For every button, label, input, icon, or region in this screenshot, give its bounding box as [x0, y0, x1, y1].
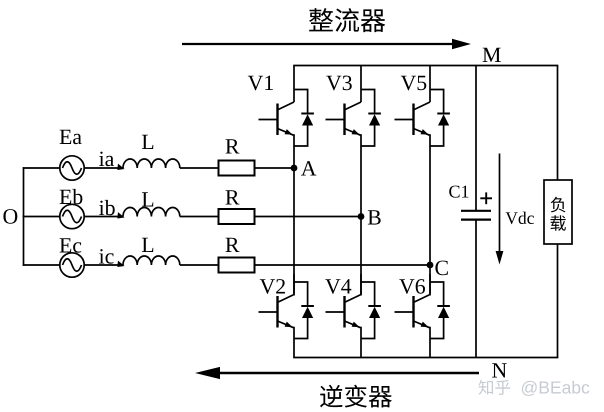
label C1	[449, 186, 468, 198]
wire: leg B bottom to N bus	[360, 339, 362, 358]
Vdc arrow annotation	[496, 154, 504, 265]
AC source Ec	[60, 253, 84, 277]
label L (phase a)	[142, 135, 153, 149]
wire: M bus to capacitor C1	[475, 66, 477, 211]
inductor L (phase c)	[123, 256, 180, 265]
label V6	[399, 279, 425, 294]
wire: resistor to node B	[255, 216, 362, 218]
wire: negative DC bus (N)	[293, 357, 558, 359]
IGBT V5 with antiparallel diode	[395, 66, 450, 147]
wire: phase a from O to source Ea	[23, 167, 60, 169]
rectifier direction arrow (top)	[182, 39, 471, 49]
node A (junction dot + label)	[291, 161, 317, 175]
capacitor C1	[461, 211, 491, 220]
label Ec	[60, 238, 82, 252]
label ic	[99, 249, 114, 264]
wire: leg A bottom to N bus	[293, 339, 295, 358]
wire: leg C midsection	[429, 146, 431, 296]
watermark 知乎 @BEabc	[479, 380, 591, 398]
wire: source Eb to inductor	[84, 216, 123, 218]
wire: phase b from O to source Eb	[23, 216, 60, 218]
label ib	[99, 200, 115, 215]
AC source Eb	[60, 204, 84, 228]
label Ea	[60, 130, 82, 144]
label R (phase b)	[226, 190, 240, 204]
AC source Ea	[60, 156, 84, 180]
label V1	[248, 76, 273, 91]
label V4	[325, 279, 351, 294]
polarity + sign	[480, 192, 492, 204]
wire: M bus to load	[557, 66, 559, 181]
wire: leg A midsection	[293, 146, 295, 296]
node B (junction dot + label)	[358, 210, 381, 224]
resistor R (phase a)	[219, 161, 255, 176]
label 整流器 (rectifier)	[309, 8, 385, 32]
node C (junction dot + label)	[427, 261, 448, 276]
wire: left neutral rail	[23, 167, 25, 266]
resistor R (phase b)	[219, 209, 255, 224]
label R (phase a)	[226, 139, 240, 153]
wire: inductor to resistor (phase b)	[180, 216, 219, 218]
current arrow ia	[116, 164, 126, 172]
wire: inductor to resistor (phase c)	[180, 264, 219, 266]
wire: resistor to node A	[255, 167, 295, 169]
label L (phase b)	[142, 192, 153, 206]
label V2	[260, 279, 285, 294]
wire: leg B midsection	[360, 146, 362, 296]
inductor L (phase a)	[123, 159, 180, 168]
wire: phase c from O to source Ec	[23, 264, 60, 266]
wire: resistor to node C	[255, 264, 431, 266]
label Vdc	[505, 212, 533, 224]
wire: leg C bottom to N bus	[429, 339, 431, 358]
current arrow ic	[116, 261, 126, 269]
wire: positive DC bus (M)	[293, 65, 558, 67]
load box 负载	[544, 180, 572, 244]
wire: inductor to resistor (phase a)	[180, 167, 219, 169]
IGBT V3 with antiparallel diode	[326, 66, 381, 147]
inverter direction arrow (bottom)	[195, 367, 479, 379]
label V5	[401, 76, 427, 91]
label V3	[326, 76, 352, 91]
wire: source Ec to inductor	[84, 264, 123, 266]
label N	[492, 363, 507, 377]
label 逆变器 (inverter)	[320, 385, 392, 408]
wire: capacitor C1 to N bus	[475, 220, 477, 358]
label ia	[99, 152, 114, 167]
label R (phase c)	[226, 238, 240, 252]
label L (phase c)	[142, 238, 153, 252]
current arrow ib	[116, 212, 126, 220]
IGBT V4 with antiparallel diode	[326, 274, 381, 339]
IGBT V1 with antiparallel diode	[259, 66, 314, 147]
IGBT V2 with antiparallel diode	[259, 274, 314, 339]
label Eb	[60, 189, 83, 204]
resistor R (phase c)	[219, 258, 255, 273]
wire: source Ea to inductor	[84, 167, 123, 169]
IGBT V6 with antiparallel diode	[395, 274, 450, 339]
label M	[483, 48, 501, 62]
node O label	[3, 209, 17, 224]
wire: load to N bus	[557, 244, 559, 358]
inductor L (phase b)	[123, 207, 180, 216]
